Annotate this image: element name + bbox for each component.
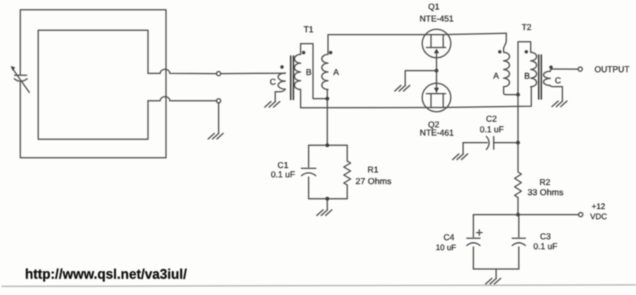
svg-text:C: C [555, 75, 561, 85]
svg-text:http://www.qsl.net/va3iul/: http://www.qsl.net/va3iul/ [25, 266, 187, 282]
svg-text:B: B [524, 71, 530, 81]
svg-text:C2: C2 [486, 114, 497, 124]
svg-text:C3: C3 [540, 231, 551, 241]
svg-text:+12: +12 [592, 202, 606, 211]
svg-text:0.1 uF: 0.1 uF [271, 169, 295, 179]
svg-text:A: A [493, 71, 499, 81]
svg-text:0.1 uF: 0.1 uF [480, 124, 504, 134]
svg-text:C: C [270, 77, 276, 87]
svg-text:VDC: VDC [590, 212, 607, 221]
svg-text:T1: T1 [304, 24, 314, 34]
svg-text:C4: C4 [444, 232, 455, 242]
svg-text:R2: R2 [540, 177, 551, 187]
svg-text:NTE-451: NTE-451 [420, 13, 454, 23]
svg-text:33 Ohms: 33 Ohms [527, 187, 563, 197]
svg-text:Q1: Q1 [428, 2, 440, 12]
svg-text:10 uF: 10 uF [436, 243, 457, 252]
svg-text:T2: T2 [522, 22, 532, 32]
svg-text:A: A [333, 67, 339, 77]
svg-text:B: B [306, 67, 312, 77]
svg-text:R1: R1 [368, 165, 379, 175]
svg-text:0.1 uF: 0.1 uF [533, 241, 557, 251]
svg-text:OUTPUT: OUTPUT [595, 64, 630, 74]
svg-text:27 Ohms: 27 Ohms [355, 176, 391, 186]
svg-text:NTE-461: NTE-461 [420, 128, 454, 138]
